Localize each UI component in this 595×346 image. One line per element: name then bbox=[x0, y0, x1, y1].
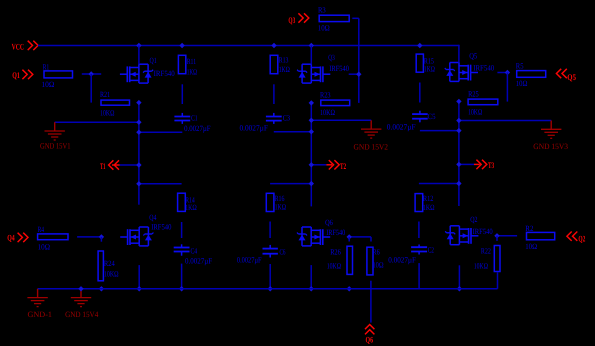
node Q2source-bus junction bbox=[457, 286, 462, 291]
label C1 bbox=[191, 114, 198, 123]
wire C5 bottom to output bbox=[420, 130, 459, 132]
label C4 bbox=[191, 247, 198, 256]
node R3-gate junction bbox=[356, 72, 361, 77]
svg-text:Q2: Q2 bbox=[470, 215, 477, 224]
node gnd1-column junction bbox=[136, 120, 141, 125]
svg-text:T2: T2 bbox=[340, 161, 346, 171]
wire R24 top pin bbox=[100, 237, 102, 242]
label R16 bbox=[275, 194, 285, 203]
label GND 15V4 bbox=[65, 310, 98, 319]
value R3 10ohm bbox=[318, 23, 330, 32]
ground GND15V1 wire bbox=[55, 121, 139, 123]
resistor R6 bbox=[367, 247, 373, 275]
wire R6 to port Q6 bbox=[370, 281, 372, 323]
label R3 bbox=[318, 5, 326, 14]
wire leg2 output column bbox=[310, 103, 312, 206]
node T2 junction bbox=[309, 162, 314, 167]
wire Q6 gate net bbox=[348, 236, 371, 238]
capacitor C2 bbox=[411, 245, 427, 255]
resistor R11 bbox=[178, 55, 185, 73]
label Q4 bbox=[149, 213, 156, 222]
svg-text:1KΩ: 1KΩ bbox=[275, 202, 287, 211]
label R24 bbox=[104, 259, 115, 268]
node R16wire junction bbox=[309, 181, 314, 186]
transistor Q2 bbox=[445, 226, 478, 245]
svg-text:R3: R3 bbox=[318, 5, 326, 14]
label R25 bbox=[468, 90, 479, 99]
svg-text:1KΩ: 1KΩ bbox=[185, 203, 197, 212]
port Q2 bbox=[567, 232, 586, 244]
node VCC-R11 junction bbox=[179, 43, 184, 48]
node C3-column junction bbox=[309, 129, 314, 134]
port Q3 bbox=[288, 13, 308, 25]
value R16 1Kohm bbox=[275, 202, 287, 211]
wire R12 to C2 bbox=[418, 222, 420, 239]
port Q1 bbox=[12, 70, 33, 80]
wire R16 to C6 bbox=[269, 222, 271, 239]
svg-text:10Ω: 10Ω bbox=[318, 23, 330, 32]
svg-text:GND 15V4: GND 15V4 bbox=[65, 310, 98, 319]
label GND 15V1 bbox=[40, 142, 71, 151]
node gnd3-column junction bbox=[456, 118, 461, 123]
value R2 10ohm bbox=[525, 242, 537, 251]
svg-text:1KΩ: 1KΩ bbox=[424, 65, 435, 74]
svg-text:R2: R2 bbox=[525, 224, 533, 233]
svg-text:0.0027µF: 0.0027µF bbox=[240, 123, 269, 132]
node VCC-R1drain junction bbox=[136, 43, 141, 48]
wire C3 bottom to output bbox=[274, 131, 312, 133]
svg-text:C5: C5 bbox=[428, 112, 436, 121]
svg-text:10KΩ: 10KΩ bbox=[100, 108, 114, 117]
node Q5gate-R25 junction bbox=[505, 70, 510, 75]
svg-text:Q3: Q3 bbox=[328, 53, 335, 62]
node T3 junction bbox=[456, 162, 461, 167]
value C2 bbox=[388, 256, 416, 265]
svg-text:IRF540: IRF540 bbox=[326, 228, 345, 237]
node R14wire junction bbox=[136, 181, 141, 186]
wire R4 to Q4 gate bbox=[77, 236, 101, 238]
svg-text:C1: C1 bbox=[191, 114, 198, 123]
svg-text:IRF540: IRF540 bbox=[151, 223, 171, 232]
label C6 bbox=[280, 248, 286, 257]
node Q4source-bus junction bbox=[137, 286, 142, 291]
svg-text:0.0027µF: 0.0027µF bbox=[237, 256, 262, 265]
svg-text:GND 15V2: GND 15V2 bbox=[354, 143, 389, 152]
node Q2gate-R22 junction bbox=[494, 233, 499, 238]
resistor R4 bbox=[38, 234, 68, 240]
wire R14 to C4 bbox=[181, 222, 183, 238]
svg-text:IRF540: IRF540 bbox=[329, 64, 349, 73]
wire R3 to Q3 gate bbox=[349, 18, 359, 103]
label R5 bbox=[516, 62, 524, 71]
value C5 bbox=[387, 122, 416, 131]
resistor R24 bbox=[98, 251, 103, 281]
svg-text:10Ω: 10Ω bbox=[373, 261, 384, 270]
value R6 10ohm bbox=[373, 261, 384, 270]
svg-text:C2: C2 bbox=[428, 245, 434, 254]
resistor R25 bbox=[468, 99, 498, 105]
value R24 10Kohm bbox=[104, 269, 119, 278]
node Q6gate-R26 junction bbox=[347, 234, 352, 239]
value R11 1Kohm bbox=[187, 68, 197, 77]
value R23 10Kohm bbox=[320, 108, 335, 117]
wire output to R14 bbox=[139, 183, 182, 185]
svg-text:10Ω: 10Ω bbox=[38, 243, 50, 252]
capacitor C6 bbox=[263, 245, 278, 258]
label R13 bbox=[279, 56, 289, 65]
label Q2 bbox=[470, 215, 477, 224]
svg-text:0.0027µF: 0.0027µF bbox=[185, 257, 213, 266]
wire R26 top pin bbox=[348, 237, 350, 242]
wire Q4 source to bus bbox=[138, 265, 140, 289]
label Q3 bbox=[328, 53, 335, 62]
port T2 bbox=[311, 160, 346, 171]
ground GND15V3 wire bbox=[459, 120, 551, 122]
wire Q1 drain to VCC bbox=[138, 46, 140, 65]
svg-text:10KΩ: 10KΩ bbox=[474, 262, 488, 271]
svg-text:10Ω: 10Ω bbox=[525, 242, 537, 251]
label Q1 bbox=[150, 56, 157, 65]
svg-text:Q6: Q6 bbox=[325, 218, 333, 227]
resistor R13 bbox=[270, 55, 278, 73]
svg-text:1KΩ: 1KΩ bbox=[187, 68, 197, 77]
transistor Q6 bbox=[297, 227, 330, 246]
resistor R2 bbox=[527, 232, 555, 239]
svg-text:Q1: Q1 bbox=[150, 56, 157, 65]
svg-text:10Ω: 10Ω bbox=[516, 79, 528, 88]
value R25 10Kohm bbox=[468, 108, 482, 117]
wire VCC rail bbox=[38, 45, 459, 47]
wire leg3 output column bbox=[458, 101, 460, 206]
port VCC bbox=[12, 41, 38, 52]
svg-text:0.0027µF: 0.0027µF bbox=[184, 124, 211, 133]
svg-text:R5: R5 bbox=[516, 62, 524, 71]
node R21-column junction bbox=[136, 100, 141, 105]
svg-text:R26: R26 bbox=[330, 247, 341, 256]
capacitor C4 bbox=[174, 244, 190, 255]
wire C6 to bus bbox=[269, 264, 271, 289]
svg-text:R4: R4 bbox=[38, 225, 44, 234]
label C3 bbox=[283, 114, 290, 123]
svg-text:Q4: Q4 bbox=[149, 213, 156, 222]
label R15 bbox=[424, 56, 434, 65]
svg-text:C3: C3 bbox=[283, 114, 290, 123]
label R1 bbox=[43, 62, 50, 71]
node R1-R21 junction bbox=[89, 71, 94, 76]
wire T1 to column bbox=[120, 164, 139, 166]
svg-text:T1: T1 bbox=[100, 161, 105, 171]
transistor Q5 bbox=[445, 63, 478, 82]
port T3 bbox=[459, 160, 494, 170]
svg-text:R22: R22 bbox=[481, 247, 491, 256]
svg-text:C4: C4 bbox=[191, 247, 198, 256]
node C4-bus junction bbox=[179, 286, 184, 291]
label R12 bbox=[423, 194, 434, 203]
node C5-column junction bbox=[456, 128, 461, 133]
capacitor C5 bbox=[412, 111, 428, 123]
node C6-bus junction bbox=[268, 286, 273, 291]
label C5 bbox=[428, 112, 436, 121]
value Q4 IRF540 bbox=[151, 223, 171, 232]
svg-text:Q3: Q3 bbox=[288, 15, 295, 25]
value Q5 IRF540 bbox=[473, 64, 494, 73]
svg-text:R1: R1 bbox=[43, 62, 50, 71]
value Q6 IRF540 bbox=[326, 228, 345, 237]
ground GND 15V4 bbox=[71, 289, 91, 307]
ground GND-1 bbox=[27, 289, 47, 307]
label R14 bbox=[185, 196, 195, 205]
port Q4 bbox=[7, 233, 28, 243]
svg-text:C6: C6 bbox=[280, 248, 286, 257]
wire C4 to bus bbox=[181, 264, 183, 289]
svg-text:R11: R11 bbox=[187, 57, 196, 66]
node R26-bus junction bbox=[347, 286, 352, 291]
value R21 10Kohm bbox=[100, 108, 114, 117]
capacitor C1 bbox=[174, 113, 190, 124]
wire R13 to C3 bbox=[273, 84, 275, 104]
label R6 bbox=[373, 247, 380, 256]
resistor R22 bbox=[494, 246, 500, 272]
node R4-R24 junction bbox=[99, 234, 104, 239]
value C4 bbox=[185, 257, 213, 266]
wire Q5 gate net bbox=[497, 72, 507, 74]
node T1 junction bbox=[136, 162, 141, 167]
svg-text:10Ω: 10Ω bbox=[41, 80, 54, 89]
value C6 bbox=[237, 256, 262, 265]
wire R1 to Q1 gate bbox=[82, 73, 101, 75]
svg-text:R13: R13 bbox=[279, 56, 289, 65]
resistor R3 bbox=[319, 15, 349, 21]
resistor R21 bbox=[101, 100, 130, 105]
node R12wire junction bbox=[456, 181, 461, 186]
label R26 bbox=[330, 247, 341, 256]
port Q5 bbox=[556, 69, 576, 82]
svg-text:GND 15V1: GND 15V1 bbox=[40, 142, 71, 151]
svg-text:Q6: Q6 bbox=[366, 335, 374, 345]
node gnd2-column junction bbox=[309, 118, 314, 123]
wire R22 top pin bbox=[496, 236, 498, 241]
svg-text:GND-1: GND-1 bbox=[28, 310, 53, 319]
capacitor C3 bbox=[266, 113, 282, 124]
wire R6 top pin bbox=[370, 237, 372, 242]
value R1 10ohm bbox=[41, 80, 54, 89]
svg-text:IRF540: IRF540 bbox=[154, 69, 175, 78]
svg-text:10KΩ: 10KΩ bbox=[327, 261, 341, 270]
resistor R5 bbox=[517, 71, 546, 78]
node VCC-Q3drain junction bbox=[309, 43, 314, 48]
value R12 1Kohm bbox=[423, 203, 435, 212]
value R13 1Kohm bbox=[279, 65, 290, 74]
node R23-column junction bbox=[309, 100, 314, 105]
label Q6 bbox=[325, 218, 333, 227]
resistor R23 bbox=[321, 100, 350, 106]
port Q6 bbox=[365, 325, 374, 345]
svg-text:R21: R21 bbox=[100, 90, 110, 99]
ground GND 15V3 bbox=[541, 121, 561, 139]
node gnd15v4-bus junction bbox=[78, 286, 83, 291]
svg-text:10KΩ: 10KΩ bbox=[468, 108, 482, 117]
ground GND 15V1 bbox=[45, 122, 65, 140]
wire R25 right pin bbox=[506, 73, 508, 102]
svg-text:Q2: Q2 bbox=[578, 233, 585, 243]
wire R15 to C5 bbox=[419, 83, 421, 103]
svg-text:Q5: Q5 bbox=[469, 51, 477, 60]
resistor R12 bbox=[415, 194, 423, 212]
resistor R1 bbox=[44, 71, 73, 78]
svg-text:IRF540: IRF540 bbox=[473, 227, 493, 236]
node VCC-R13 junction bbox=[271, 43, 276, 48]
value R4 10ohm bbox=[38, 243, 50, 252]
label GND 15V2 bbox=[354, 143, 389, 152]
wire output to R16 bbox=[270, 183, 311, 185]
node R24-bus junction bbox=[99, 286, 104, 291]
wire C2 to bus bbox=[418, 263, 420, 289]
node Q6source-bus junction bbox=[309, 286, 314, 291]
value Q2 IRF540 bbox=[473, 227, 493, 236]
label Q5 bbox=[469, 51, 477, 60]
wire leg1 output column bbox=[138, 103, 140, 205]
wire Q3 drain to VCC bbox=[310, 46, 312, 65]
value R5 10ohm bbox=[516, 79, 528, 88]
svg-text:10KΩ: 10KΩ bbox=[104, 269, 119, 278]
svg-text:Q4: Q4 bbox=[7, 233, 15, 243]
transistor Q4 bbox=[120, 227, 153, 246]
label R23 bbox=[320, 91, 331, 100]
resistor R15 bbox=[416, 54, 423, 72]
svg-text:R25: R25 bbox=[468, 90, 479, 99]
svg-text:VCC: VCC bbox=[12, 42, 24, 52]
ground GND15V2 wire bbox=[311, 119, 371, 121]
value Q1 IRF540 bbox=[154, 69, 175, 78]
wire R11 to C1 bbox=[181, 84, 183, 104]
value R14 1Kohm bbox=[185, 203, 197, 212]
wire bottom source bus bbox=[38, 273, 498, 289]
value R22 10Kohm bbox=[474, 262, 488, 271]
wire R21 left pin bbox=[90, 74, 92, 103]
wire C1 bottom to output bbox=[139, 131, 182, 133]
svg-text:R24: R24 bbox=[104, 259, 115, 268]
node VCC-R15 junction bbox=[417, 43, 422, 48]
label GND 15V3 bbox=[533, 142, 568, 151]
label GND-1 bbox=[28, 310, 53, 319]
svg-text:GND 15V3: GND 15V3 bbox=[533, 142, 568, 151]
port T1 bbox=[100, 160, 120, 171]
transistor Q3 bbox=[297, 64, 330, 83]
label R21 bbox=[100, 90, 110, 99]
wire Q2 gate net bbox=[496, 235, 517, 237]
resistor R14 bbox=[178, 193, 186, 211]
wire Q6 source to bus bbox=[310, 265, 312, 289]
label C2 bbox=[428, 245, 434, 254]
value C3 bbox=[240, 123, 269, 132]
resistor R26 bbox=[347, 246, 353, 274]
label R22 bbox=[481, 247, 491, 256]
label R4 bbox=[38, 225, 44, 234]
svg-text:R6: R6 bbox=[373, 247, 380, 256]
label R2 bbox=[525, 224, 533, 233]
svg-text:10KΩ: 10KΩ bbox=[320, 108, 335, 117]
node R25-column junction bbox=[456, 99, 461, 104]
wire Q5 drain to VCC bbox=[458, 46, 460, 63]
svg-text:IRF540: IRF540 bbox=[473, 64, 494, 73]
value R15 1Kohm bbox=[424, 65, 435, 74]
svg-text:0.0027µF: 0.0027µF bbox=[387, 122, 416, 131]
resistor R16 bbox=[266, 193, 274, 211]
ground GND 15V2 bbox=[361, 120, 381, 138]
svg-text:1KΩ: 1KΩ bbox=[423, 203, 435, 212]
transistor Q1 bbox=[120, 64, 153, 83]
svg-text:1KΩ: 1KΩ bbox=[279, 65, 290, 74]
value Q3 IRF540 bbox=[329, 64, 349, 73]
value C1 bbox=[184, 124, 211, 133]
svg-text:Q5: Q5 bbox=[567, 72, 576, 82]
svg-text:T3: T3 bbox=[488, 160, 494, 170]
wire Q2 source to bus bbox=[458, 265, 460, 289]
svg-text:R23: R23 bbox=[320, 91, 331, 100]
label R11 bbox=[187, 57, 196, 66]
value R26 10Kohm bbox=[327, 261, 341, 270]
node C1-column junction bbox=[136, 130, 141, 135]
wire output to R12 bbox=[419, 183, 459, 185]
svg-text:0.0027µF: 0.0027µF bbox=[388, 256, 416, 265]
svg-text:Q1: Q1 bbox=[12, 70, 20, 80]
